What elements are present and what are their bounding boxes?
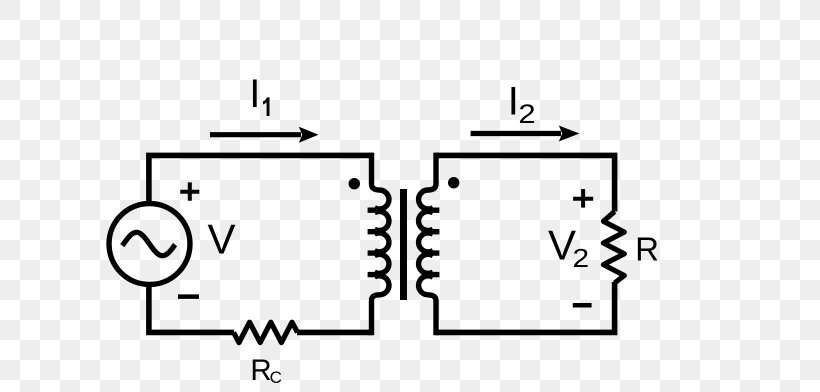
svg-text:2: 2 — [518, 100, 535, 130]
svg-text:I: I — [249, 72, 260, 116]
svg-text:R: R — [635, 230, 659, 267]
plus polarity (source) — [180, 182, 199, 200]
wire: left loop bottom-mid (R_C to primary) — [297, 330, 372, 336]
svg-text:R: R — [250, 354, 271, 387]
minus polarity (V2) — [573, 303, 592, 308]
resistor R_C — [234, 322, 298, 342]
wire: left loop bottom-left (below source to R_C) — [149, 282, 234, 332]
arrowhead I1 — [299, 127, 319, 143]
current arrow I2 — [471, 131, 561, 136]
wire: left loop top (left vertical + top horizontal) — [149, 155, 372, 206]
svg-text:2: 2 — [573, 244, 590, 273]
primary phasing dot — [349, 178, 360, 189]
svg-text:I: I — [508, 79, 519, 123]
ac voltage source V — [109, 204, 190, 285]
svg-text:V: V — [208, 216, 236, 263]
secondary phasing dot — [448, 177, 459, 188]
plus polarity (V2) — [573, 189, 593, 208]
wire: right loop top (top horizontal + upper right vertical) — [436, 155, 615, 211]
svg-text:C: C — [270, 368, 282, 387]
minus polarity (source) — [178, 294, 199, 299]
transformer secondary winding — [419, 153, 440, 336]
arrowhead I2 — [559, 126, 580, 142]
resistor R — [603, 212, 624, 284]
current arrow I1 — [210, 132, 301, 137]
transformer core — [400, 189, 407, 300]
wire: right loop bottom (bottom horizontal + lower right vertical) — [436, 282, 615, 332]
transformer primary winding — [368, 153, 389, 336]
